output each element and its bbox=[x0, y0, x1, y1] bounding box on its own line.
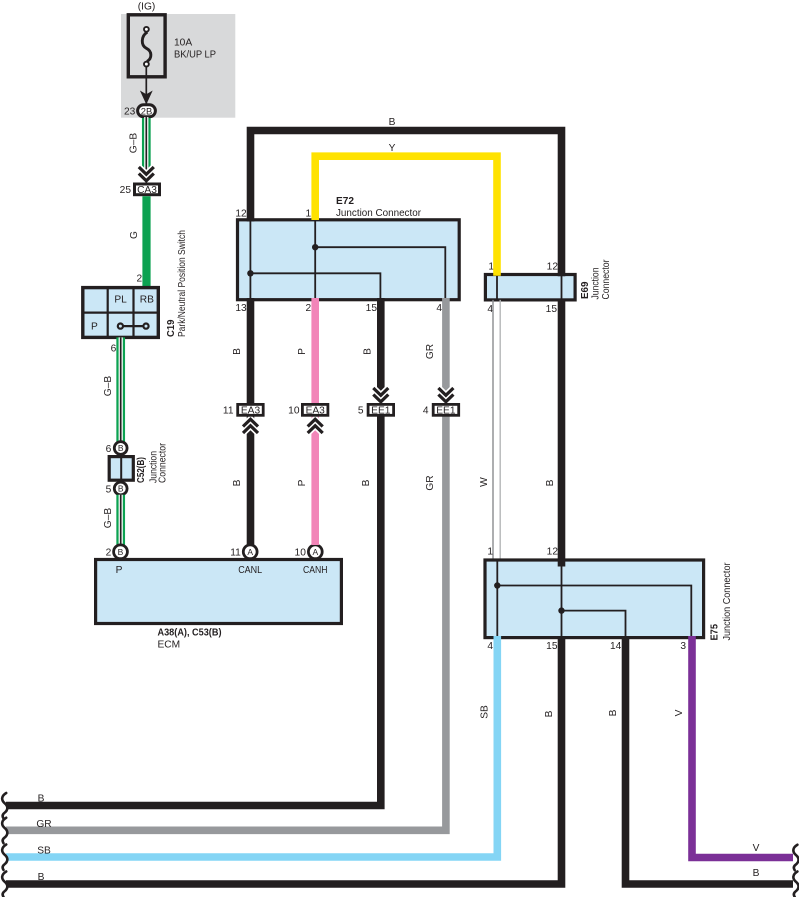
svg-text:GR: GR bbox=[36, 819, 51, 830]
svg-text:V: V bbox=[674, 709, 685, 716]
svg-text:E69: E69 bbox=[580, 281, 591, 299]
wire G-B (fuse to CA3) bbox=[129, 117, 147, 172]
wire G (CA3 to C19 pin 2) bbox=[129, 196, 147, 287]
svg-text:CANL: CANL bbox=[238, 565, 262, 576]
svg-text:5: 5 bbox=[358, 406, 364, 417]
svg-text:G: G bbox=[129, 231, 140, 239]
wire Y (E72 pin 1 to E69 pin 1) bbox=[315, 143, 497, 276]
svg-text:C52(B): C52(B) bbox=[136, 457, 147, 483]
svg-text:Junction Connector: Junction Connector bbox=[336, 208, 422, 219]
wire W white (E69 pin 4 to E75 pin 1) bbox=[479, 300, 500, 560]
svg-text:4: 4 bbox=[436, 303, 442, 314]
svg-text:A: A bbox=[247, 547, 253, 557]
svg-text:B: B bbox=[389, 117, 396, 128]
svg-text:V: V bbox=[753, 843, 760, 854]
junction connector E75 bbox=[485, 560, 733, 652]
svg-text:ECM: ECM bbox=[158, 640, 181, 651]
ECM pin 10 circle A bbox=[295, 545, 323, 559]
svg-text:12: 12 bbox=[547, 262, 559, 273]
wire B (E75 pin 14 to bottom right) bbox=[608, 636, 793, 884]
wire break squiggle V right bbox=[793, 845, 798, 870]
wire G-B (C19 pin 6 to C52 pin 6) bbox=[103, 337, 121, 442]
svg-text:P: P bbox=[297, 479, 308, 486]
svg-text:SB: SB bbox=[37, 845, 51, 856]
wire B top (E72 pin 12 up over to E69 pin 12) bbox=[251, 117, 562, 276]
wire B (EA3 to ECM pin 11 CANL) bbox=[232, 416, 251, 545]
wire break squiggle SB left bbox=[2, 845, 7, 870]
wire V (E75 pin 3 to bottom right) bbox=[674, 636, 793, 858]
svg-text:B: B bbox=[753, 868, 760, 879]
svg-text:3: 3 bbox=[680, 641, 686, 652]
svg-text:Connector: Connector bbox=[158, 442, 169, 483]
svg-text:P: P bbox=[116, 565, 123, 576]
wire G-B (C52 pin 5 to ECM pin 2) bbox=[103, 495, 121, 546]
svg-text:10: 10 bbox=[295, 548, 307, 559]
ECM pin 2 circle B bbox=[106, 545, 128, 559]
svg-text:EA3: EA3 bbox=[306, 406, 326, 417]
wire break squiggle GR left bbox=[2, 818, 7, 843]
svg-text:GR: GR bbox=[425, 475, 436, 490]
svg-text:Y: Y bbox=[389, 143, 396, 154]
svg-text:Connector: Connector bbox=[601, 259, 612, 300]
svg-text:B: B bbox=[118, 484, 124, 494]
svg-text:4: 4 bbox=[487, 641, 493, 652]
svg-text:2B: 2B bbox=[141, 106, 153, 117]
connector EA3 pin 11 + up chevrons bbox=[223, 404, 263, 433]
svg-text:P: P bbox=[91, 322, 98, 333]
svg-text:A: A bbox=[312, 547, 318, 557]
svg-text:B: B bbox=[38, 872, 45, 883]
wire SB (E75 pin 4 to bottom left) bbox=[6, 636, 497, 857]
svg-text:B: B bbox=[545, 479, 556, 486]
svg-text:P: P bbox=[297, 348, 308, 355]
wire B (E72 pin 15 down through EE1 to bottom left) bbox=[6, 298, 381, 806]
ECM box A38(A), C53(B) bbox=[96, 560, 342, 651]
svg-text:Junction: Junction bbox=[590, 268, 601, 300]
svg-text:B: B bbox=[361, 479, 372, 486]
connector 2B pin 23 bbox=[124, 105, 155, 118]
svg-text:RB: RB bbox=[140, 295, 154, 306]
wire B (E69 pin 15 to E75 pin 12) bbox=[545, 299, 562, 567]
svg-text:11: 11 bbox=[223, 406, 234, 417]
svg-text:15: 15 bbox=[546, 641, 558, 652]
wire P (EA3 to ECM pin 10 CANH) bbox=[297, 416, 315, 545]
svg-text:PL: PL bbox=[114, 295, 127, 306]
switch C19 Park/Neutral Position Switch bbox=[83, 230, 188, 337]
svg-text:A38(A), C53(B): A38(A), C53(B) bbox=[158, 628, 222, 639]
svg-text:G–B: G–B bbox=[129, 133, 140, 154]
svg-text:EA3: EA3 bbox=[241, 406, 261, 417]
svg-text:E75: E75 bbox=[710, 624, 721, 641]
svg-text:5: 5 bbox=[106, 484, 112, 495]
svg-text:B: B bbox=[38, 794, 45, 805]
connector EE1 pin 4 + down chevrons bbox=[423, 388, 459, 417]
junction connector E72 bbox=[235, 196, 459, 314]
connector EA3 pin 10 + up chevrons bbox=[288, 404, 328, 433]
svg-text:GR: GR bbox=[425, 344, 436, 359]
svg-text:23: 23 bbox=[124, 107, 136, 118]
svg-text:10: 10 bbox=[288, 406, 300, 417]
svg-text:25: 25 bbox=[120, 185, 132, 196]
wire P pink (E72 pin 2 to EA3) bbox=[297, 298, 315, 404]
wire break squiggle B left bbox=[2, 793, 7, 818]
svg-text:C19: C19 bbox=[166, 319, 177, 337]
svg-text:14: 14 bbox=[610, 641, 622, 652]
svg-text:B: B bbox=[544, 710, 555, 717]
svg-text:12: 12 bbox=[547, 547, 559, 558]
wire B stub into E75 pin 12 bbox=[558, 560, 566, 567]
svg-text:E72: E72 bbox=[336, 196, 354, 207]
svg-text:15: 15 bbox=[366, 303, 378, 314]
wire B (E72 pin 13 to EA3) bbox=[232, 298, 251, 404]
fuse panel gray box bbox=[121, 14, 235, 118]
bottom left wire name labels bbox=[36, 794, 51, 884]
svg-text:SB: SB bbox=[480, 705, 491, 719]
svg-text:G–B: G–B bbox=[103, 508, 114, 529]
svg-text:2: 2 bbox=[106, 548, 112, 559]
svg-text:B: B bbox=[232, 348, 243, 355]
fuse F (IG) 10A BK/UP LP bbox=[128, 15, 216, 77]
svg-text:Park/Neutral Position Switch: Park/Neutral Position Switch bbox=[177, 230, 188, 337]
svg-text:W: W bbox=[479, 477, 490, 487]
svg-text:13: 13 bbox=[235, 303, 247, 314]
svg-text:6: 6 bbox=[111, 344, 117, 355]
svg-text:2: 2 bbox=[306, 303, 312, 314]
svg-text:EE1: EE1 bbox=[436, 406, 456, 417]
svg-text:(IG): (IG) bbox=[138, 2, 156, 13]
wire break squiggle B right bbox=[793, 872, 798, 897]
svg-text:G–B: G–B bbox=[103, 376, 114, 397]
svg-text:B: B bbox=[363, 348, 374, 355]
svg-text:12: 12 bbox=[235, 209, 247, 220]
svg-text:2: 2 bbox=[137, 274, 143, 285]
svg-text:1: 1 bbox=[487, 547, 493, 558]
connector CA3 pin 25 bbox=[120, 184, 160, 196]
wire GR (E72 pin 4 down through EE1 to bottom left) bbox=[6, 298, 446, 830]
junction connector E69 bbox=[485, 259, 612, 315]
wire B (E75 pin 15 to bottom left) bbox=[6, 636, 562, 884]
svg-text:11: 11 bbox=[230, 548, 241, 559]
svg-text:BK/UP LP: BK/UP LP bbox=[174, 50, 216, 61]
svg-text:6: 6 bbox=[106, 444, 112, 455]
svg-text:1: 1 bbox=[306, 209, 312, 220]
svg-text:B: B bbox=[608, 709, 619, 716]
connector EE1 pin 5 + down chevrons bbox=[358, 388, 394, 417]
svg-text:CA3: CA3 bbox=[137, 185, 157, 196]
svg-text:4: 4 bbox=[423, 406, 429, 417]
svg-text:B: B bbox=[118, 443, 124, 453]
svg-text:CANH: CANH bbox=[303, 565, 328, 576]
wire break squiggle B2 left bbox=[2, 872, 7, 897]
double chevron into CA3 bbox=[139, 167, 154, 184]
svg-text:15: 15 bbox=[546, 304, 558, 315]
svg-text:10A: 10A bbox=[174, 38, 192, 49]
ECM pin 11 circle A bbox=[230, 545, 257, 559]
svg-text:B: B bbox=[118, 547, 124, 557]
svg-text:Junction Connector: Junction Connector bbox=[722, 562, 733, 641]
junction connector C52(B) bbox=[106, 442, 169, 496]
svg-text:EE1: EE1 bbox=[371, 406, 391, 417]
wire fuse to connector 2B with arrowhead bbox=[140, 67, 153, 106]
svg-text:B: B bbox=[232, 479, 243, 486]
